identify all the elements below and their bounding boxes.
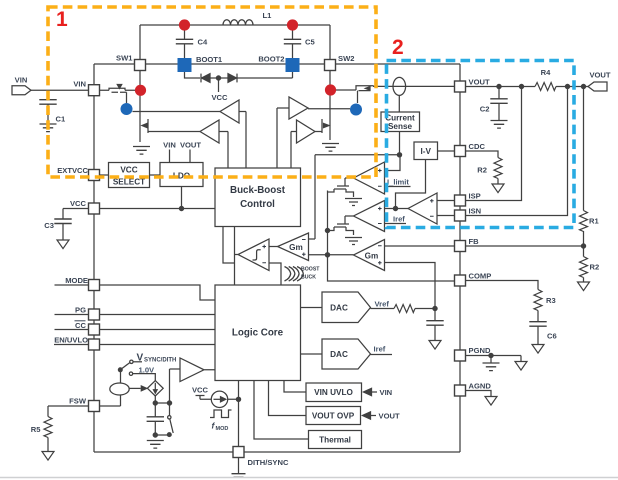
svg-text:DITH/SYNC: DITH/SYNC: [248, 458, 289, 467]
svg-text:R2: R2: [590, 263, 600, 272]
wire FB: [466, 245, 584, 247]
transistor M2 clamp lower: [328, 224, 354, 235]
svg-text:SW1: SW1: [116, 54, 133, 63]
svg-text:Vref: Vref: [375, 300, 390, 309]
svg-text:C3: C3: [44, 221, 54, 230]
svg-text:I_limit: I_limit: [387, 178, 409, 187]
wire MODE: [55, 285, 216, 300]
block current sense: [381, 112, 420, 132]
buffer A2 lower-left gate driver: [200, 120, 228, 168]
node red SW2: [287, 19, 298, 30]
svg-text:ISN: ISN: [469, 207, 482, 216]
svg-text:C5: C5: [305, 38, 315, 47]
resistor R1: [580, 87, 588, 247]
svg-text:Iref: Iref: [374, 345, 386, 354]
capacitor C2: [490, 87, 507, 121]
svg-text:EN/UVLO: EN/UVLO: [54, 336, 88, 345]
ground Vref cap: [429, 341, 441, 350]
svg-text:VIN: VIN: [163, 141, 176, 150]
pin CDC: [455, 146, 466, 157]
svg-text:VOUT: VOUT: [379, 412, 400, 421]
svg-text:BOOST: BOOST: [301, 267, 320, 273]
svg-text:Thermal: Thermal: [319, 436, 351, 445]
wire LDO VOUT input stub: [189, 150, 191, 163]
svg-text:BUCK: BUCK: [301, 275, 316, 281]
wire CC: [55, 329, 216, 331]
IC boundary outline: [94, 64, 460, 452]
svg-text:1.0V: 1.0V: [139, 366, 156, 375]
svg-text:C1: C1: [56, 115, 66, 124]
capacitor C4: [176, 25, 193, 58]
node red SW1: [179, 19, 190, 30]
capacitor C3: [54, 209, 71, 240]
wire AGND: [466, 391, 492, 397]
wire PGND: [466, 356, 522, 362]
op-amp Gm left: [278, 233, 309, 261]
bottom rule: [0, 477, 618, 479]
node clamp lower mosfet: [325, 228, 329, 232]
wire VCC rail: [63, 187, 215, 209]
buffer sync amp: [180, 358, 215, 382]
buffer A1 upper-left gate driver: [220, 100, 246, 168]
resistor R2 cdc: [494, 158, 502, 179]
wire fmod to dith: [228, 381, 239, 447]
block DAC Iref: [322, 339, 371, 369]
pin SW2: [325, 60, 336, 71]
wire pivot to ellipse: [120, 372, 122, 384]
wire Gm right minus to FB: [385, 245, 455, 247]
wire VCC SELECT to LDO: [150, 174, 161, 176]
resistor R4: [535, 83, 556, 91]
svg-text:COMP: COMP: [469, 272, 492, 281]
polarity marks all amps: [262, 169, 433, 265]
current source ellipse sync: [110, 383, 129, 395]
ground R5: [42, 452, 54, 461]
comparator I_limit: [354, 162, 385, 194]
svg-text:VOUT OVP: VOUT OVP: [312, 412, 355, 421]
wire boot diode row: [185, 72, 293, 79]
svg-text:PGND: PGND: [469, 346, 491, 355]
ground C6: [532, 345, 544, 354]
svg-text:Gm: Gm: [365, 252, 379, 261]
dashed box 2 blue: [387, 61, 575, 228]
node COMP junction: [325, 253, 329, 257]
op-amp Gm right: [354, 240, 385, 271]
wire EN/UVLO: [54, 344, 215, 346]
pin VIN: [89, 85, 100, 96]
wire COMP line to pin: [328, 255, 455, 281]
pin ISP: [455, 195, 466, 206]
svg-text:FSW: FSW: [69, 397, 87, 406]
svg-text:Buck-Boost: Buck-Boost: [230, 185, 286, 196]
ground M1: [345, 199, 362, 206]
svg-text:C4: C4: [198, 38, 208, 47]
node FB: [581, 244, 585, 248]
wire Vsync contact stub: [133, 361, 142, 363]
block Thermal: [254, 381, 309, 440]
svg-text:VCC: VCC: [120, 165, 137, 174]
capacitor C5: [284, 25, 301, 58]
transistor Q2 buck low-side: [140, 115, 200, 142]
svg-text:R4: R4: [541, 68, 551, 77]
svg-text:VCC: VCC: [211, 93, 228, 102]
capacitor C1: [39, 90, 56, 123]
fmod square wave symbol: [210, 410, 232, 418]
wire diamond to node: [155, 369, 180, 403]
ground R2: [578, 282, 590, 291]
comparator PWM with ramp: [235, 239, 282, 285]
resistor R2: [580, 246, 588, 282]
wire Q1 gate line: [133, 111, 221, 113]
svg-text:FB: FB: [469, 237, 480, 246]
svg-text:EXTVCC: EXTVCC: [57, 166, 88, 175]
wire I-V to CDC: [438, 150, 455, 152]
wire ISN riser: [466, 87, 568, 216]
svg-text:VOUT: VOUT: [469, 78, 490, 87]
transistor Q3 boost high-side: [356, 86, 373, 103]
wire SW2 node: [329, 71, 331, 116]
resistor R5: [44, 406, 52, 451]
wire ISP riser: [466, 87, 522, 201]
svg-text:VIN: VIN: [380, 388, 393, 397]
wire Iref comp output to clamp: [345, 216, 354, 224]
svg-text:Gm: Gm: [289, 243, 303, 252]
transistor Q1 buck high-side: [109, 85, 140, 104]
node Vref: [433, 306, 437, 310]
svg-text:BOOT1: BOOT1: [196, 55, 223, 64]
current source fmod: [211, 391, 227, 407]
node red buck: [135, 85, 146, 96]
arrow VIN into UVLO: [364, 388, 372, 395]
wire DITH below to cap: [238, 458, 240, 474]
wire SW1 node: [139, 71, 141, 116]
node Iref plus: [393, 206, 397, 210]
svg-text:ISP: ISP: [469, 192, 481, 201]
pin FB: [455, 241, 466, 252]
block VCC SELECT: [109, 163, 150, 188]
pin COMP: [455, 275, 466, 286]
svg-text:R3: R3: [546, 296, 556, 305]
ground C2: [491, 121, 508, 129]
svg-text:SYNC/DITH: SYNC/DITH: [144, 358, 176, 364]
wire LDO VIN input stub: [169, 150, 171, 163]
wire FSW: [48, 395, 121, 406]
svg-text:VIN: VIN: [15, 76, 28, 85]
svg-text:AGND: AGND: [469, 382, 492, 391]
wire CDC: [466, 151, 499, 158]
inductor L1: [223, 20, 253, 25]
svg-text:1: 1: [56, 8, 68, 31]
node blue boost gate: [350, 104, 362, 116]
svg-text:VCC: VCC: [70, 199, 87, 208]
pin BOOT1: [178, 59, 191, 72]
pin CC: [89, 324, 100, 335]
svg-text:Logic Core: Logic Core: [232, 328, 284, 339]
block VIN UVLO: [284, 381, 306, 393]
pin EN/UVLO: [89, 339, 100, 350]
ground PGND earth: [490, 356, 492, 363]
switch sync lever: [120, 363, 130, 370]
switch sync2: [169, 403, 171, 416]
diode D1: [201, 74, 210, 83]
wire ISP input: [437, 200, 455, 202]
wire top rail SW1-L1-SW2: [140, 25, 330, 60]
block I-V converter: [414, 142, 438, 160]
node red boost: [325, 84, 336, 95]
ramp symbol in comparator: [253, 250, 261, 260]
dashed box 1 orange: [48, 7, 376, 177]
wire BBC to logic jog: [223, 227, 235, 286]
wire current sense output: [309, 132, 401, 240]
wire VOUT rail: [466, 86, 589, 88]
bus chevrons boost/buck: [285, 267, 304, 282]
svg-text:Control: Control: [240, 199, 275, 210]
pin FSW: [89, 401, 100, 412]
svg-text:VIN UVLO: VIN UVLO: [314, 388, 353, 397]
buffer A3 upper-right gate driver: [277, 97, 308, 168]
pin ISN: [455, 210, 466, 221]
tag VOUT output: [588, 82, 607, 91]
wire Gm right plus to Vref: [385, 263, 436, 309]
svg-text:VCC: VCC: [192, 386, 209, 395]
current sense element: [393, 77, 406, 95]
wire EXTVCC to VCC SELECT: [100, 174, 109, 176]
comparator Iref: [354, 201, 385, 232]
svg-text:C2: C2: [480, 105, 490, 114]
svg-text:L1: L1: [263, 11, 273, 20]
resistor R3: [534, 290, 542, 311]
wire Vref resistor: [371, 308, 436, 310]
svg-text:Iref: Iref: [393, 215, 405, 224]
svg-text:VIN: VIN: [73, 80, 86, 89]
svg-text:V: V: [137, 353, 144, 364]
svg-text:VOUT: VOUT: [180, 141, 201, 150]
ground M2: [345, 238, 362, 245]
svg-text:SW2: SW2: [338, 54, 354, 63]
wire Gm left plus to COMP node: [309, 254, 354, 256]
pin VCC: [89, 203, 100, 214]
wire SW2 to pmos Q3: [330, 89, 356, 91]
pin PGND: [455, 350, 466, 361]
pin AGND: [455, 385, 466, 396]
ground C1: [40, 124, 57, 132]
ground Q4 source: [322, 144, 339, 152]
svg-text:R2: R2: [477, 166, 487, 175]
svg-text:R5: R5: [31, 425, 41, 434]
wire Iref minus stub: [385, 223, 407, 225]
transistor M1 clamp upper: [328, 186, 354, 197]
pin BOOT2: [286, 59, 299, 72]
wire VIN to pmos: [31, 89, 109, 91]
ground Q2 source: [133, 147, 150, 155]
wire COMP right: [466, 281, 539, 290]
wire 1.0V contact to diamond: [133, 374, 156, 381]
wire ISN input: [437, 215, 455, 217]
source diamond dependent: [147, 381, 163, 396]
svg-text:2: 2: [392, 36, 404, 59]
svg-text:R1: R1: [589, 217, 599, 226]
ground AGND arrow: [485, 397, 497, 406]
pin EXTVCC: [89, 170, 100, 181]
node current sense: [397, 153, 401, 157]
svg-text:SELECT: SELECT: [113, 178, 145, 187]
block Buck-Boost Control: [215, 168, 301, 227]
wire Iref dac stub: [371, 354, 393, 356]
svg-text:DAC: DAC: [330, 350, 348, 359]
tag VIN input: [12, 86, 31, 95]
wire cap bottom: [155, 434, 169, 436]
pin VOUT: [455, 81, 466, 92]
block LDO: [160, 163, 203, 187]
node C2 tap: [497, 84, 501, 88]
svg-text:MOD: MOD: [216, 426, 229, 432]
svg-text:BOOT2: BOOT2: [258, 55, 284, 64]
svg-text:MODE: MODE: [65, 276, 88, 285]
ground CDC resistor: [497, 179, 499, 184]
block VOUT OVP: [269, 381, 307, 416]
node ISN tap: [565, 84, 569, 88]
pin DITH/SYNC: [233, 447, 244, 458]
ground sync cap: [147, 441, 164, 449]
capacitor C6: [529, 311, 546, 345]
node blue buck gate: [121, 103, 133, 115]
supply VCC fmod: [196, 396, 212, 400]
wire clamp vertical: [327, 191, 329, 255]
pin PG: [89, 309, 100, 320]
svg-text:Sense: Sense: [388, 122, 413, 131]
block DAC Vref: [322, 292, 371, 323]
pin MODE: [89, 280, 100, 291]
ground C3: [57, 240, 69, 249]
node ISP tap: [519, 84, 523, 88]
buffer A4 lower-right gate driver: [291, 120, 315, 168]
wire PG: [55, 314, 216, 316]
node R1 tap: [581, 84, 585, 88]
block Logic Core: [215, 285, 301, 381]
svg-text:VOUT: VOUT: [589, 71, 610, 80]
ground PGND arrow: [515, 362, 527, 371]
capacitor Vref: [426, 309, 443, 341]
node VCC boot supply: [216, 76, 220, 80]
capacitor sync: [147, 403, 164, 435]
wire I_limit minus stub: [385, 186, 411, 188]
diode D2: [228, 74, 237, 83]
svg-text:C6: C6: [547, 332, 557, 341]
node VCC-LDO: [179, 206, 183, 210]
op-amp current sense diff amp: [408, 193, 437, 224]
resistor Vref: [394, 305, 415, 313]
wire A3 output to Q3 gate: [308, 108, 350, 110]
svg-text:CC: CC: [75, 321, 86, 330]
pin SW1: [135, 60, 146, 71]
arrow ellipse to diamond: [129, 387, 141, 389]
svg-text:DAC: DAC: [330, 304, 348, 313]
svg-text:PG: PG: [75, 306, 86, 315]
arrow VOUT into OVP: [363, 412, 371, 419]
svg-text:I-V: I-V: [420, 147, 431, 156]
wire Iref plus node: [385, 160, 426, 209]
transistor Q4 boost low-side: [315, 115, 330, 140]
svg-text:CDC: CDC: [469, 142, 486, 151]
wire I_limit output to clamp: [345, 178, 354, 186]
